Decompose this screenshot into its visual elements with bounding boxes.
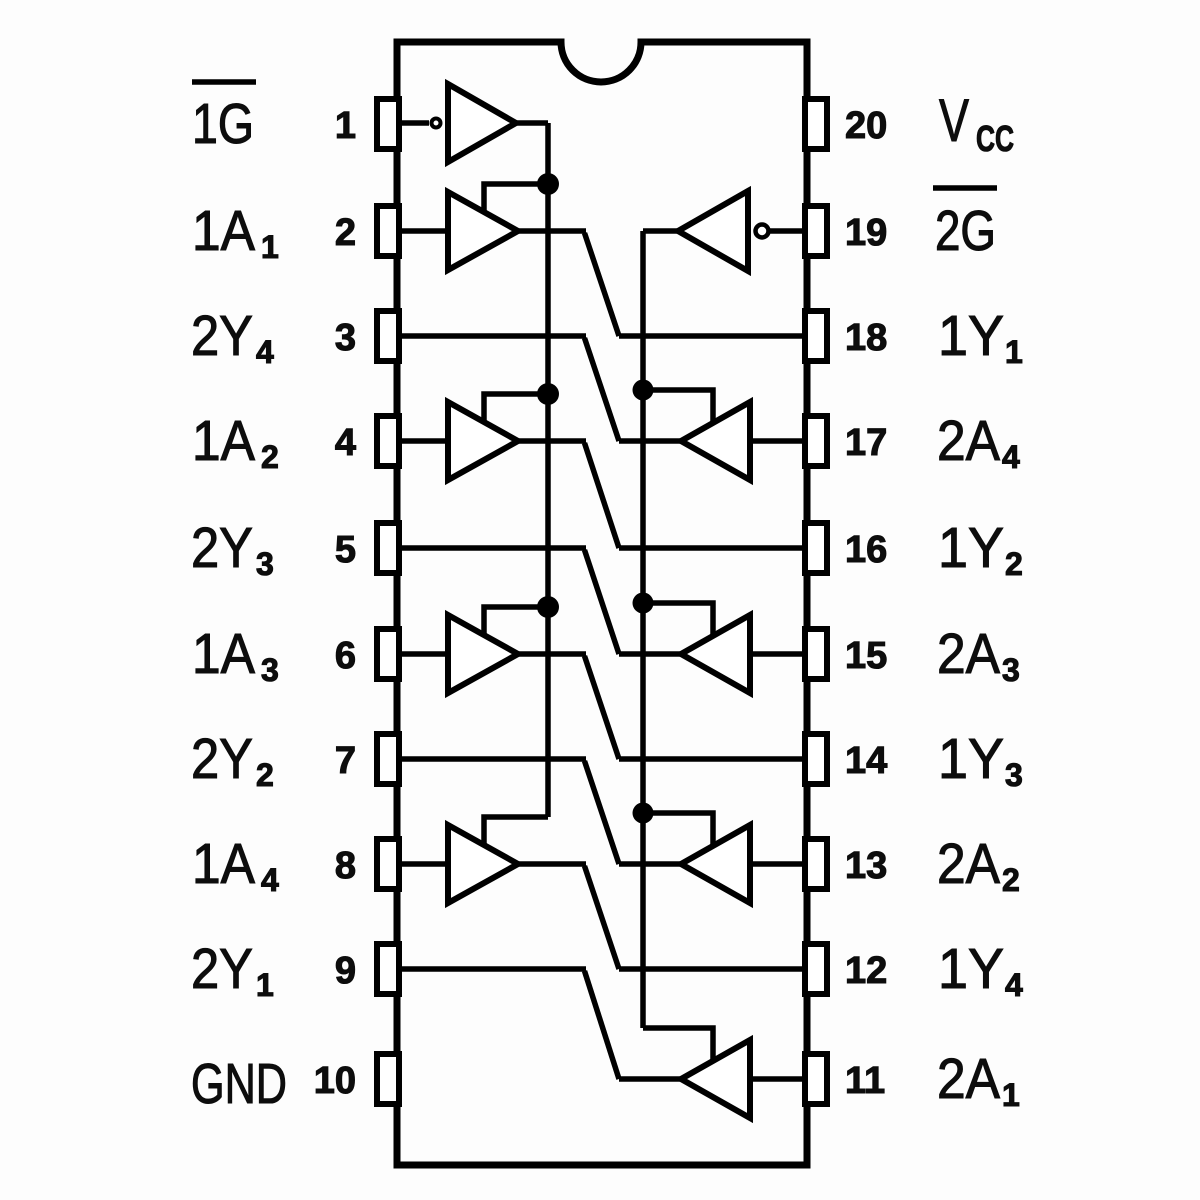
wire 2A4 pin 17 input: [750, 438, 805, 444]
buffer 2G enable inverter (pin 19): [678, 191, 748, 271]
pin 17 box: [805, 416, 827, 466]
wire 1G enable tap to buffer pin 2: [484, 184, 548, 217]
pin 14 box: [805, 734, 827, 784]
pin 3 box: [377, 311, 399, 361]
pin 5 box: [377, 523, 399, 573]
pin 18 box: [805, 311, 827, 361]
svg-text:2Y: 2Y: [191, 937, 253, 1001]
pin 13 box: [805, 839, 827, 889]
svg-text:14: 14: [845, 740, 887, 782]
wire crossover diagonal row 2 to row 3: [585, 233, 620, 336]
wire crossover diagonal row 6 to row 7: [585, 656, 620, 759]
pin 11 box: [805, 1054, 827, 1104]
pin 1 box: [377, 99, 399, 149]
svg-text:3: 3: [256, 546, 274, 582]
svg-text:3: 3: [335, 317, 356, 359]
svg-text:1G: 1G: [192, 92, 254, 156]
svg-text:3: 3: [1002, 652, 1020, 688]
svg-text:3: 3: [261, 652, 279, 688]
svg-text:3: 3: [1005, 757, 1023, 793]
wire 2G enable rail vertical: [640, 231, 646, 1028]
wire 2G enable tap to buffer row pin 8: [643, 813, 713, 848]
overline for 1G: [192, 79, 256, 85]
svg-text:1: 1: [1002, 1077, 1020, 1113]
pin 2 box: [377, 206, 399, 256]
buffer 2A2: [681, 825, 750, 903]
svg-text:13: 13: [845, 845, 887, 887]
bubble on 1G inverter input: [432, 119, 441, 128]
junction dot 1G rail row 2: [537, 173, 559, 195]
buffer U1a enable inverter (pin 1, 1G): [448, 84, 516, 162]
svg-text:2A: 2A: [937, 832, 1000, 896]
buffer 1A4 (pin 8): [448, 825, 518, 903]
svg-text:7: 7: [335, 740, 356, 782]
wire 2A1 pin 11 input: [750, 1076, 805, 1082]
svg-text:2Y: 2Y: [191, 304, 253, 368]
wire 2A3 pin 15 input: [750, 651, 805, 657]
svg-text:17: 17: [845, 422, 887, 464]
svg-text:6: 6: [335, 635, 356, 677]
wire 2G enable tap to buffer row pin 4: [643, 390, 713, 425]
wire crossover diagonal row 4 to row 5: [585, 443, 620, 548]
wire pin 3 (2Y4) output run: [399, 333, 586, 339]
svg-text:4: 4: [1005, 967, 1023, 1003]
wire pin 19 (2G) to inverter bubble: [769, 228, 805, 234]
svg-text:1: 1: [335, 105, 356, 147]
svg-text:1Y: 1Y: [938, 937, 1004, 1001]
wire pin 8 (1A4) to buffer input: [399, 861, 448, 867]
svg-text:2Y: 2Y: [191, 727, 253, 791]
buffer 1A2 (pin 4): [448, 402, 518, 480]
svg-text:5: 5: [335, 529, 356, 571]
pin 12 box: [805, 944, 827, 994]
svg-text:20: 20: [845, 105, 887, 147]
svg-text:CC: CC: [976, 118, 1014, 159]
svg-text:2A: 2A: [937, 409, 1000, 473]
pin 6 box: [377, 629, 399, 679]
buffer 1A3 (pin 6): [448, 615, 518, 693]
wire pin 4 (1A2) to buffer input: [399, 438, 448, 444]
wire 2A2 pin 13 input: [750, 861, 805, 867]
wire 1G enable rail vertical: [545, 123, 551, 817]
pin 19 box: [805, 206, 827, 256]
svg-text:8: 8: [335, 845, 356, 887]
svg-text:2: 2: [335, 212, 356, 254]
svg-text:1A: 1A: [192, 409, 255, 473]
wire 2G inverter output: [643, 228, 680, 234]
wire buffer output row pin 2: [516, 228, 586, 234]
wire 2G enable tap to buffer row pin 6: [643, 603, 713, 638]
wire to 1Y2 pin 16: [619, 545, 805, 551]
wire pin 5 (2Y3) output run: [399, 545, 586, 551]
svg-text:2: 2: [261, 439, 279, 475]
svg-text:2: 2: [1002, 862, 1020, 898]
svg-text:18: 18: [845, 317, 887, 359]
svg-text:1: 1: [261, 229, 279, 265]
svg-text:1A: 1A: [192, 622, 255, 686]
svg-text:12: 12: [845, 950, 887, 992]
svg-text:2Y: 2Y: [191, 516, 253, 580]
wire pin 6 (1A3) to buffer input: [399, 651, 448, 657]
buffer 2A1: [681, 1040, 750, 1118]
wire to 1Y3 pin 14: [619, 756, 805, 762]
wire crossover diagonal row 9 to row 10: [585, 971, 620, 1079]
pin 20 box: [805, 99, 827, 149]
wire pin 9 (2Y1) output run: [399, 966, 586, 972]
junction dot 1G rail row 6: [537, 596, 559, 618]
svg-text:1: 1: [256, 967, 274, 1003]
wire pin 1 to enable inverter input: [399, 120, 429, 126]
svg-text:V: V: [939, 87, 969, 154]
wire buffer output row pin 8: [516, 861, 586, 867]
pin 7 box: [377, 734, 399, 784]
svg-text:4: 4: [335, 422, 356, 464]
svg-text:1A: 1A: [192, 199, 255, 263]
overline for 2G: [933, 185, 997, 191]
svg-text:2A: 2A: [937, 622, 1000, 686]
wire 2G enable tap to buffer row pin 10: [643, 1028, 713, 1063]
wire buffer output 2A1 pin 11 row: [619, 1076, 681, 1082]
wire crossover diagonal row 8 to row 9: [585, 866, 620, 969]
buffer 1A1 (pin 2): [448, 192, 518, 270]
wire buffer output 2A3 pin 15 row: [619, 651, 681, 657]
svg-text:2G: 2G: [935, 199, 996, 263]
wire 1G enable tap to buffer pin 4: [484, 394, 548, 427]
pin 16 box: [805, 523, 827, 573]
svg-text:4: 4: [261, 862, 279, 898]
buffer 2A4: [681, 402, 750, 480]
pin 15 box: [805, 629, 827, 679]
wire crossover diagonal row 7 to row 8: [585, 761, 620, 864]
wire buffer output row pin 4: [516, 438, 586, 444]
wire buffer output 2A2 pin 13 row: [619, 861, 681, 867]
svg-text:1Y: 1Y: [938, 516, 1004, 580]
svg-text:4: 4: [1002, 439, 1020, 475]
junction dot 2G rail row 6: [633, 593, 654, 614]
wire crossover diagonal row 5 to row 6: [585, 550, 620, 654]
pin 8 box: [377, 839, 399, 889]
svg-text:1: 1: [1005, 334, 1023, 370]
buffer 2A3: [681, 615, 750, 693]
svg-text:10: 10: [314, 1060, 356, 1102]
wire pin 2 (1A1) to buffer input: [399, 228, 448, 234]
wire to 1Y4 pin 12: [619, 966, 805, 972]
svg-text:2A: 2A: [937, 1047, 1000, 1111]
bubble on 2G inverter input: [756, 225, 769, 238]
svg-text:1Y: 1Y: [938, 727, 1004, 791]
svg-text:15: 15: [845, 635, 887, 677]
junction dot 2G rail row 8: [633, 803, 654, 824]
wire 1G inverter output: [514, 120, 548, 126]
svg-text:9: 9: [335, 950, 356, 992]
svg-text:1A: 1A: [192, 832, 255, 896]
svg-text:GND: GND: [191, 1052, 287, 1116]
wire pin 7 (2Y2) output run: [399, 756, 586, 762]
junction dot 2G rail row 4: [633, 380, 654, 401]
svg-text:4: 4: [256, 334, 274, 370]
wire buffer output row pin 6: [516, 651, 586, 657]
pin 10 box: [377, 1054, 399, 1104]
wire 1G enable tap to buffer pin 6: [484, 607, 548, 640]
IC body U1 (20-pin DIP outline with notch): [397, 42, 807, 1165]
wire crossover diagonal row 3 to row 4: [585, 338, 620, 441]
pin 4 box: [377, 416, 399, 466]
junction dot 1G rail row 4: [537, 383, 559, 405]
svg-text:2: 2: [1005, 546, 1023, 582]
wire to 1Y1 pin 18: [619, 333, 805, 339]
svg-text:11: 11: [845, 1060, 885, 1102]
pin 9 box: [377, 944, 399, 994]
wire 1G enable tap to buffer pin 8: [484, 817, 548, 850]
svg-text:2: 2: [256, 757, 274, 793]
svg-text:1Y: 1Y: [938, 304, 1004, 368]
wire buffer output 2A4 pin 17 row: [619, 438, 681, 444]
svg-text:19: 19: [845, 212, 887, 254]
svg-text:16: 16: [845, 529, 887, 571]
